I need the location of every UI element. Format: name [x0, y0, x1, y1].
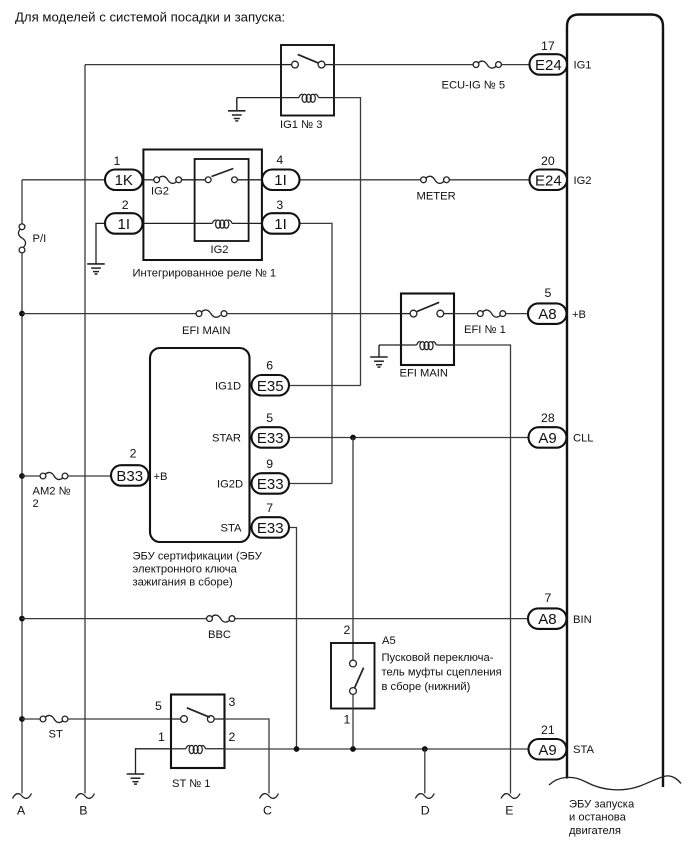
connector A8 pin5 — [528, 286, 586, 324]
svg-text:в сборе (нижний): в сборе (нижний) — [382, 681, 471, 693]
wire bus B vertical — [84, 65, 86, 794]
svg-text:20: 20 — [541, 154, 555, 168]
connector 1I pin3 — [262, 198, 300, 234]
svg-text:1: 1 — [344, 713, 351, 727]
connector break D — [415, 794, 434, 799]
svg-text:двигателя: двигателя — [569, 825, 621, 837]
svg-text:A8: A8 — [538, 611, 556, 628]
fuse BBC — [207, 615, 235, 622]
svg-text:A9: A9 — [538, 430, 556, 447]
wire BBC to A8 pin7 — [235, 618, 528, 620]
svg-text:А5: А5 — [382, 635, 396, 647]
connector A9 pin21 — [529, 723, 595, 760]
connector E33 pin7 — [221, 501, 290, 538]
connector E33 pin9 — [217, 457, 289, 494]
wire AM2 row — [22, 475, 40, 477]
fuse METER — [421, 176, 450, 183]
svg-text:STA: STA — [221, 523, 242, 535]
svg-text:7: 7 — [545, 591, 552, 605]
relay IG1 No3 coil — [237, 94, 335, 102]
svg-text:5: 5 — [266, 411, 273, 425]
svg-text:1: 1 — [158, 730, 165, 744]
node junction STA/D — [422, 746, 428, 752]
connector A8 pin7 — [528, 591, 592, 629]
integrated relay No1 outer box — [143, 150, 262, 261]
ECU main box — [567, 15, 663, 788]
svg-text:IG2D: IG2D — [217, 479, 243, 491]
wire STA E33 riser — [289, 528, 297, 750]
relay ST No1 coil — [171, 745, 225, 753]
svg-text:D: D — [421, 804, 430, 818]
svg-text:Пусковой переключа-: Пусковой переключа- — [382, 652, 494, 664]
wire fuse to A8 pin5 — [506, 313, 528, 315]
connector E24 pin20 — [530, 154, 592, 190]
svg-text:7: 7 — [266, 501, 273, 515]
svg-text:+B: +B — [154, 471, 168, 483]
relay IG1 No3 switch — [281, 54, 334, 68]
svg-text:E: E — [505, 804, 513, 818]
wire 1I pin2 to coil — [143, 222, 213, 224]
node junction STA/A5 — [350, 746, 356, 752]
svg-text:ST № 1: ST № 1 — [172, 778, 211, 790]
wire bus A vertical — [21, 180, 23, 224]
connector E35 pin6 — [215, 359, 289, 396]
connector B33 pin2 — [111, 447, 149, 486]
node A junction BBC row — [19, 616, 25, 622]
wire EFI row A to fuse — [22, 313, 196, 315]
relay EFI MAIN box — [401, 294, 454, 366]
svg-text:A: A — [17, 804, 26, 818]
wire 1I pin4 to METER — [300, 179, 421, 181]
relay EFI MAIN switch — [401, 302, 454, 317]
fuse EFI MAIN — [196, 310, 227, 317]
svg-text:Интегрированное реле № 1: Интегрированное реле № 1 — [133, 268, 277, 280]
wire EFI coil to bus E — [454, 345, 511, 794]
integrated relay No1 inner box — [195, 159, 249, 241]
svg-text:4: 4 — [276, 153, 283, 167]
relay ST No1 box — [171, 695, 225, 769]
connector A9 pin28 — [529, 411, 594, 448]
svg-text:B: B — [79, 804, 87, 818]
svg-text:E35: E35 — [257, 378, 284, 395]
svg-text:5: 5 — [545, 286, 552, 300]
switch A5 contacts — [350, 660, 364, 694]
svg-text:1K: 1K — [115, 172, 133, 189]
svg-text:EFI № 1: EFI № 1 — [464, 324, 506, 336]
connector 1I pin2 — [105, 198, 143, 234]
wire ST coil ground branch — [136, 749, 172, 774]
relay EFI MAIN coil — [379, 342, 454, 350]
svg-text:ST: ST — [49, 729, 63, 741]
connector E33 pin5 — [212, 411, 289, 448]
wire METER to E24 pin20 — [450, 179, 530, 181]
fuse P/I — [18, 224, 25, 253]
wire IG2D to riser — [289, 483, 332, 485]
svg-text:3: 3 — [276, 198, 283, 212]
svg-text:IG1: IG1 — [574, 60, 592, 72]
wire 1I pin3 riser to IG2D — [300, 223, 333, 483]
wire ST relay pin3 to bus C — [225, 719, 270, 794]
svg-text:E33: E33 — [257, 430, 284, 447]
wire IG1No3 coil to riser — [334, 98, 361, 386]
fuse AM2 No2 — [40, 472, 68, 479]
wire STAR to A9 pin28 — [289, 437, 529, 439]
svg-text:1: 1 — [114, 154, 121, 168]
wire A5 riser top — [352, 438, 354, 661]
svg-text:BIN: BIN — [573, 614, 592, 626]
connector E24 pin17 — [530, 39, 592, 75]
node junction STAR/A5 — [350, 435, 356, 441]
svg-text:2: 2 — [229, 730, 236, 744]
connector break B — [76, 794, 95, 799]
svg-text:зажигания в сборе): зажигания в сборе) — [133, 577, 233, 589]
svg-text:C: C — [263, 804, 272, 818]
svg-text:B33: B33 — [116, 468, 143, 485]
svg-text:IG2: IG2 — [574, 175, 592, 187]
ground integrated relay — [87, 264, 105, 274]
integrated relay coil — [212, 220, 232, 228]
svg-text:IG1D: IG1D — [215, 381, 241, 393]
svg-text:2: 2 — [344, 623, 351, 637]
connector break C — [260, 794, 279, 799]
svg-text:STAR: STAR — [212, 433, 241, 445]
wire BBC row A to fuse — [22, 618, 206, 620]
svg-text:BBC: BBC — [208, 629, 231, 641]
svg-text:АМ2 №: АМ2 № — [33, 486, 71, 498]
integrated relay switch — [205, 169, 262, 183]
connector break A — [13, 794, 32, 799]
wire IG1 row left — [85, 64, 281, 66]
svg-text:2: 2 — [122, 198, 129, 212]
svg-text:ЭБУ запуска: ЭБУ запуска — [569, 799, 635, 811]
wire fuse to EFI relay — [227, 313, 401, 315]
wire fuse IG2 to switch — [182, 179, 205, 181]
svg-text:P/I: P/I — [33, 233, 47, 245]
connector break E — [501, 794, 520, 799]
fuse IG2 — [154, 176, 182, 183]
svg-text:METER: METER — [417, 191, 456, 203]
svg-text:тель муфты сцепления: тель муфты сцепления — [382, 667, 502, 679]
svg-text:1I: 1I — [118, 216, 131, 233]
ECU bottom wavy — [549, 776, 681, 790]
svg-text:CLL: CLL — [573, 433, 594, 445]
svg-text:E24: E24 — [535, 57, 562, 74]
node A junction AM2 row — [19, 473, 25, 479]
svg-text:2: 2 — [130, 447, 137, 461]
wire ST fuse to relay — [68, 718, 171, 720]
wire fuse to E24 pin17 — [502, 64, 530, 66]
svg-text:5: 5 — [155, 699, 162, 713]
fuse ECU-IG No5 — [473, 61, 501, 68]
connector 1I pin4 — [262, 153, 300, 190]
connector 1K pin1 — [105, 154, 143, 190]
svg-text:EFI MAIN: EFI MAIN — [182, 325, 230, 337]
svg-text:1I: 1I — [274, 216, 287, 233]
svg-text:IG2: IG2 — [151, 186, 169, 198]
svg-text:E24: E24 — [535, 172, 562, 189]
wire STA row relay pin2 to A9 — [225, 748, 529, 750]
svg-text:E33: E33 — [257, 476, 284, 493]
node junction STA/E33 — [294, 746, 300, 752]
svg-text:6: 6 — [266, 359, 273, 373]
svg-text:1I: 1I — [274, 172, 287, 189]
svg-text:17: 17 — [541, 39, 555, 53]
wire coil row: ground branch — [96, 223, 106, 264]
wire AM2 to B33 — [68, 475, 111, 477]
svg-text:ЭБУ сертификации (ЭБУ: ЭБУ сертификации (ЭБУ — [133, 551, 263, 563]
svg-text:Для моделей с системой посадки: Для моделей с системой посадки и запуска… — [15, 10, 285, 25]
svg-text:IG2: IG2 — [211, 244, 229, 256]
wire IG1 row to fuse — [334, 64, 473, 66]
svg-text:ECU-IG № 5: ECU-IG № 5 — [442, 80, 506, 92]
node A junction EFI row — [19, 311, 25, 317]
relay IG1 No3 box — [281, 45, 334, 116]
wire 1K to fuse IG2 — [143, 179, 154, 181]
svg-text:2: 2 — [33, 498, 39, 510]
relay ST No1 switch — [171, 708, 225, 723]
svg-text:STA: STA — [573, 744, 594, 756]
wire bus D — [424, 749, 426, 794]
svg-text:A9: A9 — [538, 742, 556, 759]
wire ST row A to fuse — [22, 718, 40, 720]
svg-text:21: 21 — [541, 723, 555, 737]
svg-text:E33: E33 — [257, 520, 284, 537]
wire IG1D E35 to riser — [289, 385, 361, 387]
svg-text:электронного ключа: электронного ключа — [133, 564, 238, 576]
svg-text:A8: A8 — [538, 306, 556, 323]
switch A5 box — [331, 643, 375, 709]
svg-text:28: 28 — [541, 411, 555, 425]
wire coil to 1I pin3 — [232, 222, 262, 224]
ground IG1 No3 — [228, 98, 246, 121]
svg-text:EFI MAIN: EFI MAIN — [400, 368, 448, 380]
svg-text:и останова: и останова — [569, 812, 627, 824]
node A junction ST row — [19, 716, 25, 722]
ground ST No1 — [127, 774, 145, 784]
wire EFI relay to fuse EFI No1 — [454, 313, 477, 315]
svg-text:9: 9 — [266, 457, 273, 471]
fuse EFI No1 — [477, 310, 505, 317]
fuse ST — [40, 715, 68, 722]
svg-text:3: 3 — [229, 695, 236, 709]
ECU certification block — [150, 348, 250, 542]
wire IG2 row: A to 1K — [22, 179, 105, 181]
svg-text:+B: +B — [572, 309, 586, 321]
wire A5 riser bottom — [352, 694, 354, 749]
svg-text:IG1 № 3: IG1 № 3 — [280, 119, 322, 131]
ground EFI MAIN — [370, 345, 388, 367]
